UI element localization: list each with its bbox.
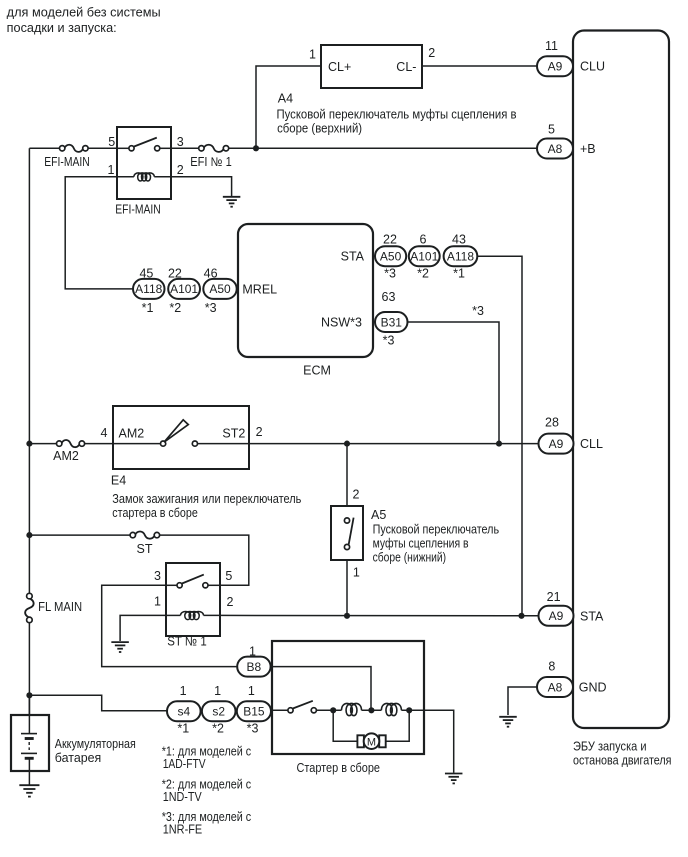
svg-text:стартера в сборе: стартера в сборе	[112, 506, 198, 520]
svg-text:CL-: CL-	[396, 60, 416, 74]
svg-text:*3: *3	[205, 301, 217, 315]
fuse EFI-MAIN	[60, 145, 89, 152]
E4 contact left	[161, 441, 166, 446]
junction starter output	[406, 707, 412, 713]
svg-text:s2: s2	[212, 705, 225, 719]
svg-text:21: 21	[547, 590, 561, 604]
wire EFI-MAIN fuse to relay pin 5	[88, 147, 117, 149]
svg-text:3: 3	[177, 135, 184, 149]
ground of starter circuit	[445, 774, 463, 784]
connector B8	[237, 657, 270, 677]
svg-text:*3: *3	[384, 266, 396, 280]
ignition switch E4 box	[113, 406, 249, 469]
svg-text:5: 5	[108, 135, 115, 149]
wire ECM NSW to B31	[373, 321, 375, 323]
svg-text:63: 63	[382, 290, 396, 304]
svg-text:B15: B15	[243, 705, 265, 719]
ECM box	[238, 224, 373, 357]
svg-text:1NR-FE: 1NR-FE	[163, 823, 203, 837]
wire CLL junction to A5 pin2	[346, 444, 348, 506]
starter pull-in coil	[381, 703, 401, 715]
wire ST No.1 pin5 inside	[208, 584, 220, 586]
wire B15 to starter switch	[271, 709, 288, 711]
svg-text:*3: *3	[472, 304, 484, 318]
relay EFI-MAIN switch blade	[134, 138, 157, 147]
svg-text:11: 11	[545, 39, 558, 53]
svg-text:43: 43	[452, 232, 466, 246]
svg-text:28: 28	[545, 416, 559, 430]
svg-text:ECM: ECM	[303, 364, 331, 378]
relay EFI-MAIN contact left	[129, 146, 134, 151]
svg-text:*2: *2	[169, 301, 181, 315]
wire E4 ST2 to ECU CLL	[249, 443, 539, 445]
fuse ST	[130, 532, 159, 539]
wire left bus to EFI-MAIN fuse	[29, 147, 59, 149]
relay EFI-MAIN box	[117, 127, 171, 199]
svg-text:ST2: ST2	[222, 427, 245, 441]
wire A4 pin2 to ECU CLU	[422, 65, 537, 67]
svg-text:A50: A50	[380, 250, 402, 264]
left battery bus lower	[28, 623, 30, 715]
connector A8 (+B)	[537, 139, 573, 159]
svg-text:*3: *3	[247, 721, 259, 735]
svg-text:A50: A50	[209, 282, 231, 296]
wire ST No.1 pin2 / STA row to ECU STA	[220, 614, 539, 616]
junction bus / ST row	[26, 532, 32, 538]
svg-text:1: 1	[154, 594, 161, 608]
svg-text:*2: *2	[417, 266, 429, 280]
svg-text:E4: E4	[111, 474, 126, 488]
svg-text:STA: STA	[341, 250, 365, 264]
svg-text:CL+: CL+	[328, 60, 351, 74]
svg-text:AM2: AM2	[119, 427, 145, 441]
wire ST No.1 pin3 to B8	[102, 585, 238, 666]
svg-text:4: 4	[101, 426, 108, 440]
svg-text:2: 2	[177, 163, 184, 177]
svg-text:EFI № 1: EFI № 1	[190, 155, 232, 169]
left battery bus upper	[28, 148, 30, 593]
starter switch contact left	[288, 708, 293, 713]
ground of battery	[19, 785, 39, 796]
fuse EFI No.1	[199, 145, 229, 152]
wire coil stub left	[166, 614, 181, 616]
junction CLL / A5 branch	[344, 441, 350, 447]
wire ST No.1 coil pin1 to ground	[120, 615, 166, 641]
wire ST fuse to ST No.1 pin5	[159, 535, 248, 585]
svg-text:останова двигателя: останова двигателя	[573, 753, 672, 767]
svg-text:A118: A118	[135, 282, 162, 296]
svg-text:1: 1	[214, 684, 221, 698]
ST No.1 contact left	[177, 583, 182, 588]
battery box	[11, 715, 49, 771]
connector A118 (MREL)	[133, 279, 165, 299]
svg-text:2: 2	[353, 488, 360, 502]
svg-text:A9: A9	[549, 609, 564, 623]
battery cells	[21, 734, 37, 759]
svg-text:1: 1	[180, 684, 187, 698]
starter switch blade	[293, 701, 313, 709]
connector s2	[202, 701, 236, 721]
svg-text:Стартер в сборе: Стартер в сборе	[297, 761, 381, 775]
junction starter motor branch	[330, 707, 336, 713]
wire A4 pin1 to +B junction	[256, 66, 321, 148]
junction STA row / A5 branch	[344, 613, 350, 619]
connector B15	[237, 701, 271, 721]
connector B31 (NSW)	[375, 312, 408, 332]
svg-text:для моделей без системы: для моделей без системы	[7, 6, 161, 20]
svg-text:*1: *1	[177, 721, 189, 735]
connector A9 (STA)	[539, 606, 574, 626]
wire ECM STA to A50	[373, 255, 375, 257]
wire AM2 fuse to E4 pin4	[84, 443, 113, 445]
clutch start switch A4 (upper) box	[321, 45, 422, 88]
ST No.1 switch blade	[182, 575, 204, 584]
wire battery negative to ground	[28, 758, 30, 784]
ground near ST No.1 relay	[111, 642, 129, 652]
svg-text:+B: +B	[580, 142, 596, 156]
wire bus into battery	[28, 695, 30, 733]
svg-text:A101: A101	[170, 282, 198, 296]
svg-text:*1: *1	[142, 301, 154, 315]
svg-text:CLU: CLU	[580, 60, 605, 74]
wire starter output to ground	[401, 710, 453, 772]
svg-text:муфты сцепления в: муфты сцепления в	[373, 537, 469, 551]
svg-text:Пусковой переключатель: Пусковой переключатель	[373, 523, 500, 537]
svg-text:CLL: CLL	[580, 437, 603, 451]
wire starter motor right to output	[386, 710, 410, 741]
wire ST No.1 pin3 inside	[166, 584, 177, 586]
connector A118 (STA)	[444, 246, 478, 266]
ground near EFI-MAIN relay	[223, 197, 241, 207]
relay ST No.1 box	[166, 563, 220, 636]
fusible link FL MAIN	[25, 593, 34, 622]
svg-text:A9: A9	[548, 60, 563, 74]
svg-text:A4: A4	[278, 92, 293, 106]
connector A101 (STA)	[409, 246, 440, 266]
svg-text:*2: *2	[212, 721, 224, 735]
svg-text:FL MAIN: FL MAIN	[38, 600, 82, 614]
ground of ECU	[499, 717, 517, 727]
ST No.1 contact right	[203, 583, 208, 588]
svg-text:2: 2	[227, 595, 234, 609]
connector A8 (GND)	[537, 677, 573, 697]
svg-text:батарея: батарея	[55, 751, 102, 765]
wire bus to AM2 fuse	[29, 443, 56, 445]
svg-text:1AD-FTV: 1AD-FTV	[163, 757, 207, 771]
svg-text:NSW*3: NSW*3	[321, 316, 362, 330]
wire A5 pin1 to STA row	[346, 560, 348, 616]
wire bus to ST fuse	[29, 534, 130, 536]
svg-text:8: 8	[548, 660, 555, 674]
svg-text:s4: s4	[177, 705, 190, 719]
svg-text:B8: B8	[247, 660, 262, 674]
junction B8 wire / coils	[368, 707, 374, 713]
wire relay coil pin2 to ground	[171, 177, 232, 197]
wire coil stub right	[154, 176, 171, 178]
svg-text:3: 3	[154, 569, 161, 583]
relay EFI-MAIN contact right	[155, 146, 160, 151]
svg-text:посадки и запуска:: посадки и запуска:	[7, 21, 117, 35]
wire ECU GND to ground	[508, 687, 537, 715]
wire E4 internal right	[198, 443, 250, 445]
junction bus / AM2 row	[26, 441, 32, 447]
svg-text:2: 2	[256, 425, 263, 439]
E4 contact right	[192, 441, 197, 446]
connector A50 (MREL)	[203, 279, 236, 299]
svg-text:ЭБУ запуска и: ЭБУ запуска и	[573, 740, 647, 754]
connector A50 (STA)	[375, 246, 406, 266]
relay EFI-MAIN coil	[134, 173, 154, 181]
svg-text:A101: A101	[410, 250, 438, 264]
junction CLL / NSW branch	[496, 441, 502, 447]
svg-text:A9: A9	[549, 437, 564, 451]
svg-text:сборе (верхний): сборе (верхний)	[277, 121, 362, 135]
wire relay coil pin1 to MREL chain	[65, 177, 133, 289]
svg-text:сборе (нижний): сборе (нижний)	[373, 550, 447, 564]
svg-text:GND: GND	[579, 681, 607, 695]
svg-text:6: 6	[420, 232, 427, 246]
svg-text:1: 1	[309, 48, 316, 62]
svg-text:ST № 1: ST № 1	[167, 635, 207, 649]
svg-text:M: M	[367, 736, 376, 748]
svg-text:*3: *3	[383, 334, 395, 348]
wire A118 STA down to STA row	[477, 256, 522, 616]
junction +B / A4 branch	[253, 145, 259, 151]
wire relay pin5 inside	[117, 147, 129, 149]
svg-text:B31: B31	[381, 315, 403, 329]
A5 contact top	[344, 518, 349, 523]
svg-text:1: 1	[248, 684, 255, 698]
svg-text:EFI-MAIN: EFI-MAIN	[44, 155, 90, 169]
svg-text:1ND-TV: 1ND-TV	[163, 790, 203, 804]
wire coil stub left	[117, 176, 134, 178]
svg-text:5: 5	[225, 569, 232, 583]
svg-text:*1: *1	[453, 266, 465, 280]
wire B31 down to CLL row	[408, 322, 500, 444]
wire relay pin3 to EFI No.1 fuse	[171, 147, 199, 149]
starter assembly box	[272, 641, 424, 754]
svg-text:EFI-MAIN: EFI-MAIN	[115, 203, 161, 217]
wire EFI No.1 fuse to ECU +B	[229, 147, 538, 149]
connector s4	[167, 701, 201, 721]
ECU (engine start/stop ECU) outline	[573, 31, 669, 729]
svg-text:1: 1	[108, 163, 115, 177]
svg-text:ST: ST	[137, 542, 153, 556]
svg-text:A5: A5	[371, 508, 386, 522]
wire to starter motor left	[333, 710, 357, 741]
wire B8 to starter coil node	[271, 667, 371, 711]
junction bus / starter feed	[26, 692, 32, 698]
svg-text:2: 2	[428, 46, 435, 60]
svg-text:22: 22	[383, 232, 397, 246]
svg-text:Замок зажигания или переключат: Замок зажигания или переключатель	[112, 492, 301, 506]
svg-text:STA: STA	[580, 610, 604, 624]
svg-text:5: 5	[548, 123, 555, 137]
wire coil stub right	[204, 614, 221, 616]
wire starter switch to coil 1	[316, 709, 341, 711]
junction STA row / A118 branch	[518, 613, 524, 619]
starter switch contact right	[311, 708, 316, 713]
E4 ignition key lever	[164, 420, 188, 442]
svg-text:A8: A8	[548, 142, 563, 156]
wire A50 to ECM MREL	[237, 288, 238, 290]
relay ST No.1 coil	[181, 612, 204, 620]
clutch start switch A5 (lower) box	[331, 506, 363, 560]
starter hold-in coil	[342, 703, 362, 715]
svg-text:AM2: AM2	[53, 449, 79, 463]
connector A101 (MREL)	[168, 279, 200, 299]
wire E4 internal left	[113, 443, 161, 445]
svg-text:A118: A118	[447, 250, 474, 264]
wire bus to s4 connector	[29, 695, 167, 711]
A5 switch blade	[349, 518, 354, 545]
svg-text:MREL: MREL	[242, 282, 277, 296]
svg-text:Аккумуляторная: Аккумуляторная	[55, 737, 136, 751]
wire relay pin3 inside	[160, 147, 171, 149]
fuse AM2	[57, 440, 85, 447]
connector A9 (CLU)	[537, 56, 573, 76]
A5 contact bottom	[344, 544, 349, 549]
svg-text:A8: A8	[548, 680, 563, 694]
starter motor M1	[357, 733, 385, 749]
wire between starter coils	[362, 709, 382, 711]
svg-text:1: 1	[353, 566, 360, 580]
connector A9 (CLL)	[539, 434, 574, 454]
svg-text:Пусковой переключатель муфты с: Пусковой переключатель муфты сцепления в	[277, 107, 517, 121]
